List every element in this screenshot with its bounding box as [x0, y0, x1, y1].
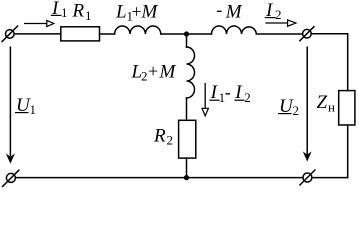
label U1: [15, 95, 36, 117]
svg-text:1: 1: [61, 5, 68, 20]
wire -M coil to TR terminal: [256, 33, 302, 35]
label R2: [153, 125, 173, 147]
wire node A down to L2 coil: [186, 34, 188, 47]
node A (junction dot): [184, 31, 189, 36]
svg-text:-: -: [225, 82, 231, 102]
svg-text:1: 1: [85, 8, 92, 23]
wire Zн box to bottom wire: [347, 125, 349, 178]
node B (junction dot): [184, 175, 189, 180]
svg-text:M: M: [225, 2, 243, 23]
svg-text:+: +: [148, 61, 158, 81]
svg-text:2: 2: [167, 132, 174, 147]
voltage arrow U1: [6, 47, 15, 164]
terminal TR (slashed circle): [300, 27, 314, 41]
inductor L2+M (vertical, 3 humps): [187, 47, 195, 98]
bottom wire: BL terminal to BR terminal: [16, 177, 303, 179]
voltage arrow U2: [303, 47, 312, 162]
terminal BL (slashed circle): [3, 170, 19, 186]
wire L2 coil to R2: [186, 98, 188, 120]
svg-text:M: M: [141, 2, 159, 23]
wire top-left: TL terminal to R1: [14, 33, 61, 35]
svg-text:1: 1: [30, 102, 37, 117]
svg-text:н: н: [328, 100, 335, 115]
resistor R1 (box): [61, 27, 100, 41]
svg-text:2: 2: [244, 90, 251, 105]
svg-text:Z: Z: [317, 92, 328, 113]
svg-text:R: R: [153, 125, 166, 146]
svg-text:L: L: [115, 2, 127, 23]
load impedance Zн (box): [339, 91, 355, 125]
label I1-I2: [209, 82, 250, 105]
label I2: [265, 0, 282, 22]
terminal TL (slashed circle): [2, 26, 17, 41]
svg-text:-: -: [216, 0, 222, 19]
resistor R2 (box): [179, 120, 196, 158]
label L2+M: [131, 61, 177, 83]
label Zн: [317, 92, 336, 115]
label R1: [72, 1, 92, 23]
wire coil L1 to node A and on to -M coil: [161, 33, 212, 35]
svg-text:R: R: [72, 1, 85, 22]
current arrow I2: [265, 20, 296, 26]
svg-text:M: M: [159, 61, 177, 82]
current arrow I1: [24, 20, 54, 26]
svg-text:2: 2: [141, 68, 148, 83]
label -M: [216, 0, 243, 23]
wire TR terminal to right edge, down to Zн box: [311, 34, 348, 91]
wire bottom-right: BR terminal to right edge: [312, 177, 348, 179]
label L1+M: [115, 1, 159, 23]
terminal BR (slashed circle): [300, 170, 315, 185]
label U2: [278, 96, 299, 118]
inductor -M (3 humps): [212, 26, 257, 34]
svg-text:+: +: [132, 1, 142, 21]
svg-text:2: 2: [293, 103, 300, 118]
svg-text:2: 2: [275, 7, 282, 22]
current arrow I1-I2 (middle branch): [202, 83, 208, 116]
label I1: [51, 0, 68, 20]
inductor L1+M (3 humps): [115, 26, 161, 34]
wire R1 to L1 coil: [100, 33, 115, 35]
wire R2 to bottom node B: [186, 158, 188, 178]
